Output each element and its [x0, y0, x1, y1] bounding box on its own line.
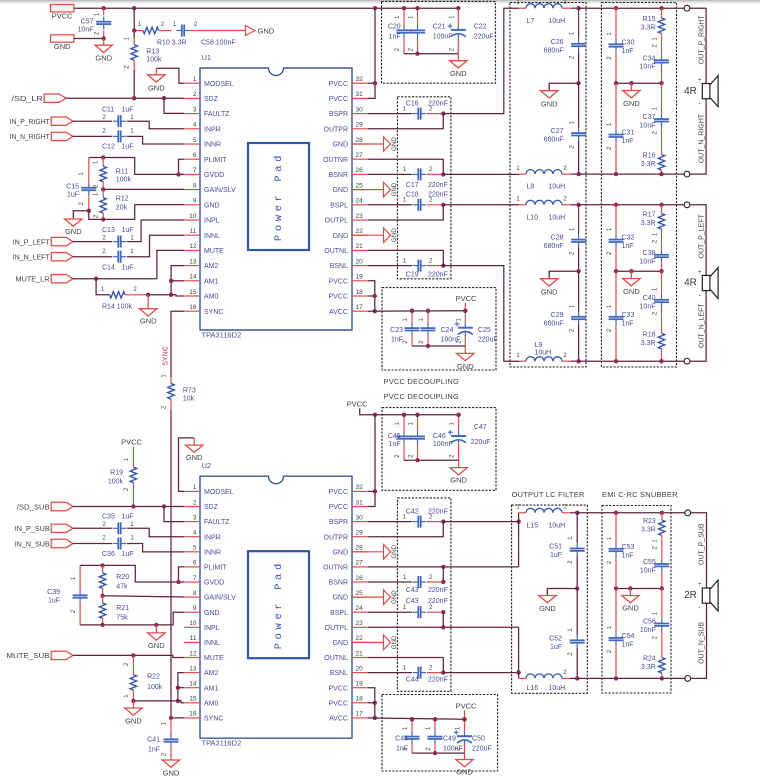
PVCC decoupling box (C23-C25)	[382, 288, 496, 370]
svg-text:GAIN/SLV: GAIN/SLV	[204, 187, 236, 194]
svg-text:GND: GND	[332, 549, 348, 556]
wire OUT_P_RIGHT to speaker +	[690, 8, 706, 83]
svg-text:5: 5	[193, 137, 197, 144]
svg-text:C47: C47	[474, 424, 487, 431]
wire OUTPL pin23 riser to C18	[368, 205, 443, 220]
pin 16 (SYNC) of U2	[184, 717, 200, 719]
capacitor C50 220uF	[464, 719, 466, 731]
pin 21 (OUTNL) of U1	[352, 249, 368, 251]
svg-text:OUTPR: OUTPR	[324, 126, 349, 133]
svg-text:C22: C22	[474, 23, 487, 30]
svg-text:GND: GND	[622, 604, 639, 613]
pin 28 (GND) of U1	[352, 143, 368, 145]
pin 29 (OUTPR) of U2	[352, 536, 368, 538]
pin 26 (BSNR) of U2	[352, 581, 368, 583]
svg-text:R19: R19	[110, 469, 123, 476]
svg-text:C29: C29	[551, 312, 564, 319]
svg-text:22: 22	[356, 635, 364, 642]
wire OUTNL pin21 riser to C44 (U2)	[368, 658, 443, 673]
svg-text:PVCC: PVCC	[329, 81, 348, 88]
pin 10 (INPL) of U2	[184, 626, 200, 628]
port IN_N_RIGHT	[51, 132, 73, 140]
svg-text:OUTNL: OUTNL	[324, 248, 348, 255]
capacitor C48 1nF	[411, 719, 413, 731]
svg-text:GND: GND	[623, 99, 640, 108]
svg-text:+: +	[698, 269, 702, 275]
output LC filter box (sub)	[512, 505, 588, 693]
svg-text:FAULTZ: FAULTZ	[204, 519, 230, 526]
svg-text:PLIMIT: PLIMIT	[204, 565, 227, 572]
inductor L7 10uH	[519, 7, 526, 9]
svg-text:C25: C25	[478, 327, 491, 334]
svg-text:C48: C48	[395, 735, 408, 742]
wire speaker - to OUT_N_RIGHT	[690, 99, 706, 174]
pin 5 (INNR) of U2	[184, 551, 200, 553]
svg-text:100k: 100k	[147, 684, 163, 691]
pin 13 (AM2) of U1	[184, 265, 200, 267]
svg-text:220nF: 220nF	[428, 182, 448, 189]
port /SD_SUB	[51, 502, 73, 510]
pin 20 (BSNL) of U2	[352, 672, 368, 674]
pin 9 (GND) of U1	[184, 204, 200, 206]
svg-text:GND: GND	[148, 84, 165, 93]
capacitor C22 220uF	[457, 8, 459, 25]
svg-text:2: 2	[193, 91, 197, 98]
svg-text:C11: C11	[102, 107, 114, 114]
svg-text:OUT_N_SUB: OUT_N_SUB	[699, 622, 706, 664]
svg-text:1uF: 1uF	[122, 227, 134, 234]
capacitor C43 220nF	[368, 581, 412, 583]
svg-text:13: 13	[189, 258, 197, 265]
svg-text:1nF: 1nF	[622, 552, 634, 559]
ground symbol at U1 MODSEL	[148, 75, 165, 82]
svg-text:680nF: 680nF	[544, 243, 564, 250]
svg-text:1: 1	[193, 76, 197, 83]
wire MUTE_LR to pin 12 MUTE of U1	[73, 250, 184, 278]
svg-text:C20: C20	[388, 23, 401, 30]
svg-text:GND: GND	[450, 69, 467, 78]
svg-text:R15: R15	[643, 16, 656, 23]
wire C15 bottom to GND and GND row	[73, 211, 89, 219]
capacitor C24 100nF	[427, 311, 429, 323]
wire OUTNR net to L8	[443, 173, 519, 175]
wire OUTNR pin27 riser to C43 (U2)	[368, 566, 519, 568]
pin 31 (PVCC) of U1	[352, 97, 368, 99]
svg-text:R10 3.3R: R10 3.3R	[157, 40, 187, 47]
svg-text:18: 18	[356, 289, 364, 296]
ground arrow at U2 pin 28	[352, 551, 384, 553]
wire OUTPR net to L7	[443, 8, 519, 113]
svg-text:PVCC: PVCC	[329, 489, 348, 496]
capacitor C20 1nF	[403, 8, 405, 25]
svg-text:C33: C33	[622, 312, 635, 319]
pin 14 (AM1) of U2	[184, 687, 200, 689]
svg-text:GND: GND	[204, 202, 220, 209]
pin 32 (PVCC) of U1	[352, 82, 368, 84]
svg-text:C55: C55	[643, 559, 656, 566]
capacitor C32 1nF	[615, 205, 617, 235]
wire MODSEL pin 1 to GND (U1)	[156, 68, 184, 83]
pin 27 (OUTNR) of U2	[352, 566, 368, 568]
svg-text:PVCC DECOUPLING: PVCC DECOUPLING	[384, 392, 460, 401]
wire /SD_LR to pin 2 SDZ of U1	[66, 97, 184, 99]
svg-text:2R: 2R	[684, 590, 697, 601]
svg-text:PVCC: PVCC	[329, 504, 348, 511]
resistor R20 47k	[102, 565, 104, 573]
svg-text:R12: R12	[116, 196, 129, 203]
svg-text:5: 5	[193, 545, 197, 552]
svg-text:10uH: 10uH	[549, 522, 566, 529]
pin 1 (MODSEL) of U2	[184, 490, 200, 492]
bootstrap capacitor bank box (C16-C19)	[397, 97, 451, 279]
svg-text:C46: C46	[433, 433, 446, 440]
pin 14 (AM1) of U1	[184, 280, 200, 282]
wire snubber top row	[579, 7, 685, 9]
svg-text:AVCC: AVCC	[329, 309, 348, 316]
wire ground rail of C20-C22	[404, 53, 458, 55]
wire OUT_P_LEFT to speaker +	[690, 205, 706, 276]
svg-text:PVCC: PVCC	[456, 294, 477, 303]
svg-text:/SD_SUB: /SD_SUB	[17, 502, 50, 511]
wire ground rail of C45-C47	[404, 459, 459, 461]
svg-text:OUT_P_RIGHT: OUT_P_RIGHT	[699, 14, 706, 64]
inductor L15 10uH	[519, 512, 526, 514]
svg-text:C28: C28	[551, 235, 564, 242]
svg-text:GND: GND	[332, 187, 348, 194]
pin 30 (BSPR) of U2	[352, 521, 368, 523]
port IN_N_LEFT	[51, 253, 73, 261]
wire GND row to pin 9 of U1	[89, 205, 184, 220]
ground symbol LC filter	[541, 91, 558, 98]
svg-text:GND: GND	[163, 769, 180, 778]
svg-text:+: +	[698, 78, 702, 84]
svg-text:GND: GND	[541, 288, 558, 297]
svg-text:GND: GND	[539, 604, 556, 613]
svg-text:R17: R17	[643, 212, 656, 219]
svg-text:L10: L10	[527, 214, 539, 221]
terminal circle OUT_N_SUB	[685, 676, 691, 682]
pin 2 (SDZ) of U2	[184, 506, 200, 508]
wire OUTPR net to L15 join	[443, 521, 518, 523]
svg-text:INPR: INPR	[204, 534, 221, 541]
svg-text:100k: 100k	[116, 177, 132, 184]
svg-text:GND: GND	[54, 42, 71, 51]
svg-text:INPL: INPL	[204, 218, 220, 225]
svg-text:3: 3	[193, 514, 197, 521]
svg-text:AM0: AM0	[204, 294, 219, 301]
svg-text:C16: C16	[406, 100, 419, 107]
svg-text:BSNL: BSNL	[330, 263, 348, 270]
wire R13 to SDZ net	[133, 70, 135, 98]
svg-text:C24: C24	[441, 327, 454, 334]
ground symbol in C45-C47 box	[458, 460, 460, 467]
capacitor C39 1uF	[79, 565, 81, 590]
capacitor C40 10nF	[661, 271, 663, 294]
pin 4 (INPR) of U1	[184, 128, 200, 130]
svg-text:C15: C15	[66, 183, 79, 190]
wire snubber gnd row	[616, 270, 662, 272]
wire PVCC port to C57 node	[74, 7, 104, 9]
EMI snubber box (right/left channels)	[601, 3, 676, 368]
svg-text:+: +	[698, 582, 702, 588]
pin 2 (SDZ) of U1	[184, 97, 200, 99]
svg-text:C26: C26	[551, 39, 564, 46]
pin 12 (MUTE) of U2	[184, 657, 200, 659]
pin 11 (INNL) of U2	[184, 641, 200, 643]
ground arrow at U1 pin 28	[352, 143, 384, 145]
svg-text:17: 17	[356, 711, 364, 718]
svg-text:C19: C19	[406, 271, 419, 278]
svg-text:8: 8	[193, 182, 197, 189]
capacitor C55 10nF	[654, 563, 669, 565]
svg-text:C54: C54	[622, 633, 635, 640]
capacitor C43 220nF	[368, 611, 412, 613]
ground arrow at U2 pin 22	[352, 641, 384, 643]
capacitor C47 220uF	[458, 415, 460, 431]
terminal circle OUT_N_RIGHT	[684, 171, 690, 177]
svg-text:15: 15	[189, 696, 197, 703]
resistor R10 3.3R	[134, 30, 143, 32]
pin 18 (PVCC) of U1	[352, 295, 368, 297]
pin 23 (OUTPL) of U1	[352, 219, 368, 221]
svg-text:C35: C35	[102, 514, 115, 521]
capacitor C31 1nF	[615, 83, 617, 129]
svg-text:AVCC: AVCC	[329, 716, 348, 723]
pin 27 (OUTNR) of U1	[352, 158, 368, 160]
svg-text:L7: L7	[527, 18, 535, 25]
port IN_P_RIGHT	[51, 117, 73, 125]
svg-text:4R: 4R	[684, 86, 697, 97]
svg-text:SYNC: SYNC	[163, 346, 170, 365]
pin 8 (GAIN/SLV) of U1	[184, 189, 200, 191]
ground symbol in C20-C22 box	[457, 54, 459, 61]
pin 9 (GND) of U2	[184, 611, 200, 613]
svg-text:19: 19	[356, 681, 364, 688]
output LC filter box (right/left channels)	[510, 3, 586, 368]
ground symbol snubber sub	[629, 589, 631, 596]
wire ground rail of C48-C50	[412, 752, 465, 754]
svg-text:R20: R20	[116, 574, 129, 581]
svg-text:14: 14	[189, 274, 197, 281]
svg-text:GND: GND	[140, 317, 157, 326]
svg-text:10uH: 10uH	[535, 349, 552, 356]
wire /SD_SUB to pin 2 SDZ of U2	[73, 506, 184, 508]
svg-text:GND: GND	[450, 476, 467, 485]
pin 32 (PVCC) of U2	[352, 490, 368, 492]
svg-text:47k: 47k	[116, 584, 128, 591]
svg-text:3.3R: 3.3R	[641, 664, 656, 671]
capacitor C25 220uF	[464, 311, 466, 323]
svg-text:PVCC: PVCC	[329, 294, 348, 301]
svg-text:C14: C14	[102, 264, 115, 271]
svg-text:R18: R18	[643, 332, 656, 339]
svg-text:16: 16	[189, 304, 197, 311]
svg-text:11: 11	[190, 228, 197, 235]
svg-text:BSPL: BSPL	[330, 610, 348, 617]
svg-text:23: 23	[356, 620, 364, 627]
svg-text:PVCC: PVCC	[329, 700, 348, 707]
svg-text:SYNC: SYNC	[204, 716, 223, 723]
svg-text:SDZ: SDZ	[204, 96, 219, 103]
svg-text:680nF: 680nF	[544, 320, 564, 327]
svg-text:GND: GND	[258, 26, 275, 35]
resistor R73 10k	[170, 377, 172, 384]
capacitor C21 100nF	[417, 8, 419, 25]
pin 10 (INPL) of U1	[184, 219, 200, 221]
resistor R17 3.3R	[661, 205, 663, 214]
svg-text:25: 25	[356, 182, 364, 189]
capacitor C28 680nF	[578, 205, 580, 235]
wire gnd tap LC	[576, 81, 580, 85]
svg-text:MODSEL: MODSEL	[204, 489, 234, 496]
svg-text:22: 22	[356, 228, 364, 235]
svg-text:PVCC: PVCC	[347, 399, 368, 408]
svg-text:AM2: AM2	[204, 263, 219, 270]
pin 7 (GVDD) of U2	[184, 581, 200, 583]
svg-text:R16: R16	[643, 153, 656, 160]
svg-text:1nF: 1nF	[622, 243, 634, 250]
pin 5 (INNR) of U1	[184, 143, 200, 145]
svg-text:U1: U1	[202, 53, 212, 62]
capacitor C19 220nF	[368, 265, 412, 267]
svg-text:10uH: 10uH	[549, 685, 566, 692]
pin 28 (GND) of U2	[352, 551, 368, 553]
svg-text:10nF: 10nF	[640, 568, 656, 575]
capacitor C36 1uF	[73, 543, 112, 545]
svg-text:26: 26	[356, 167, 364, 174]
svg-text:C39: C39	[47, 589, 60, 596]
capacitor C37 10nF	[661, 83, 663, 114]
svg-text:20: 20	[356, 258, 364, 265]
pin 24 (BSPL) of U2	[352, 611, 368, 613]
terminal circle OUT_P_LEFT	[684, 202, 690, 208]
svg-text:R73: R73	[183, 387, 196, 394]
svg-text:AM1: AM1	[204, 685, 219, 692]
speaker 4R	[702, 275, 710, 290]
svg-text:C32: C32	[622, 235, 635, 242]
port IN_N_SUB	[51, 539, 73, 547]
wire L7 to output rail	[571, 7, 579, 9]
capacitor C58 100nF	[181, 25, 183, 37]
svg-text:PVCC: PVCC	[456, 701, 477, 710]
svg-text:1nF: 1nF	[622, 641, 634, 648]
svg-text:31: 31	[356, 91, 364, 98]
op-amp U2 TPA3116D2 amplifier IC body	[200, 476, 352, 738]
svg-text:100k: 100k	[146, 56, 162, 63]
svg-text:R14 100k: R14 100k	[102, 304, 132, 311]
svg-text:GND: GND	[457, 362, 474, 371]
svg-text:GND: GND	[391, 635, 398, 649]
svg-text:19: 19	[356, 274, 364, 281]
svg-text:25: 25	[356, 590, 364, 597]
capacitor C49 100nF	[434, 719, 436, 731]
ground symbol below R14	[147, 295, 149, 309]
svg-text:C40: C40	[643, 295, 656, 302]
ground arrow at U1 pin 22	[352, 234, 384, 236]
svg-text:GND: GND	[332, 233, 348, 240]
svg-text:BSPR: BSPR	[329, 111, 348, 118]
svg-text:3.3R: 3.3R	[641, 220, 656, 227]
port MUTE_LR	[51, 275, 73, 283]
pin 16 (SYNC) of U1	[184, 310, 200, 312]
svg-text:C56: C56	[643, 619, 656, 626]
port MUTE_SUB	[51, 651, 73, 659]
wire branch to pin 3 FAULTZ of U1	[164, 98, 184, 113]
svg-text:R21: R21	[116, 605, 129, 612]
capacitor C57 10nF	[103, 8, 105, 15]
resistor R16 3.3R	[658, 155, 664, 171]
wire GVDD divider top (U2)	[80, 565, 184, 582]
wire MODSEL pin 1 of U2 to GND	[179, 438, 195, 492]
svg-text:GND: GND	[204, 610, 220, 617]
inductor L9 10uH	[519, 360, 526, 362]
wire PVCC stem into box C	[360, 408, 459, 415]
capacitor C11 1uF	[73, 120, 112, 122]
svg-text:Power Pad: Power Pad	[273, 152, 285, 241]
wire snubber top row (sub)	[577, 512, 685, 514]
svg-text:2: 2	[193, 499, 197, 506]
svg-text:13: 13	[189, 665, 197, 672]
svg-text:INPL: INPL	[204, 625, 220, 632]
capacitor C46 100nF	[417, 415, 419, 431]
svg-text:GND: GND	[391, 544, 398, 558]
svg-text:10nF: 10nF	[640, 123, 656, 130]
svg-text:18: 18	[356, 696, 364, 703]
svg-text:C17: C17	[406, 182, 419, 189]
pin 31 (PVCC) of U2	[352, 506, 368, 508]
wire AVCC/PVCC pins 19/18/17 of U2	[368, 688, 375, 718]
svg-text:INNL: INNL	[204, 233, 220, 240]
svg-text:BSNR: BSNR	[329, 580, 348, 587]
svg-text:10: 10	[189, 213, 197, 220]
svg-text:C13: C13	[102, 227, 115, 234]
pin 18 (PVCC) of U2	[352, 702, 368, 704]
svg-text:21: 21	[356, 650, 364, 657]
wire OUTNL net to L16 join	[443, 672, 518, 674]
capacitor C27 680nF	[578, 83, 580, 128]
svg-text:OUT_P_LEFT: OUT_P_LEFT	[699, 213, 706, 258]
pin 21 (OUTNL) of U2	[352, 657, 368, 659]
svg-text:10nF: 10nF	[78, 26, 94, 33]
svg-text:C53: C53	[622, 544, 635, 551]
pin 6 (PLIMIT) of U1	[184, 158, 200, 160]
svg-text:IN_N_LEFT: IN_N_LEFT	[13, 253, 50, 262]
wire AM bracket (U2)	[133, 673, 184, 701]
svg-text:C31: C31	[622, 130, 635, 137]
wire OUTNL net to L9	[443, 266, 519, 362]
svg-text:C38: C38	[643, 250, 656, 257]
wire snubber gnd row (sub)	[616, 588, 662, 590]
svg-text:9: 9	[193, 605, 197, 612]
wire PBTL join vertical lower (to L16)	[518, 627, 520, 678]
svg-text:10nF: 10nF	[640, 258, 656, 265]
svg-text:C27: C27	[551, 128, 564, 135]
svg-text:R24: R24	[643, 656, 656, 663]
svg-text:AM2: AM2	[204, 670, 219, 677]
svg-text:TPA3116D2: TPA3116D2	[202, 739, 242, 748]
capacitor C51 1uF	[576, 513, 578, 543]
bootstrap capacitor bank box (C42-C44)	[397, 498, 451, 691]
ground arrow at U1 pin 25	[352, 189, 384, 191]
svg-text:14: 14	[189, 681, 197, 688]
power pad of U1	[248, 143, 309, 250]
svg-text:OUTPL: OUTPL	[325, 218, 348, 225]
svg-text:C45: C45	[388, 433, 401, 440]
svg-text:R23: R23	[643, 518, 656, 525]
svg-text:GND: GND	[391, 228, 398, 242]
svg-text:C37: C37	[643, 114, 656, 121]
svg-text:100nF: 100nF	[433, 441, 453, 448]
